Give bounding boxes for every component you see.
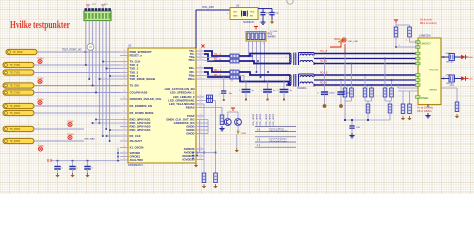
svg-text:1: 1 <box>123 118 124 120</box>
svg-text:1: 1 <box>199 102 200 104</box>
svg-text:1: 1 <box>123 139 124 141</box>
svg-text:1: 1 <box>123 77 124 79</box>
svg-text:COL_SPDX: COL_SPDX <box>257 113 259 125</box>
svg-text:OUT: OUT <box>233 12 238 14</box>
svg-text:COL_SPDX: COL_SPDX <box>270 113 272 125</box>
svg-text:PGND: PGND <box>37 99 44 101</box>
svg-text:RD+_B: RD+_B <box>320 73 328 75</box>
svg-text:RD-_B: RD-_B <box>320 83 327 85</box>
svg-text:1: 1 <box>277 90 278 92</box>
svg-text:1: 1 <box>199 154 200 156</box>
svg-text:1: 1 <box>123 134 124 136</box>
svg-text:TP_PWR: TP_PWR <box>13 51 23 54</box>
svg-text:TD-_A: TD-_A <box>214 58 221 61</box>
svg-text:1: 1 <box>199 49 200 51</box>
svg-text:TD+_B: TD+_B <box>320 51 328 53</box>
svg-text:RDm: RDm <box>188 77 195 81</box>
svg-text:TD-_B: TD-_B <box>320 61 327 63</box>
svg-text:RX_DV/MII_MODE: RX_DV/MII_MODE <box>130 111 154 115</box>
svg-text:Off for Half Duplex: Off for Half Duplex <box>269 140 288 143</box>
svg-text:PGND: PGND <box>37 78 44 80</box>
svg-text:TEST_POINT_AD: TEST_POINT_AD <box>62 49 82 52</box>
svg-text:RD+_A: RD+_A <box>214 69 222 72</box>
svg-text:2: 2 <box>406 40 407 42</box>
svg-text:GND_MAX: GND_MAX <box>84 138 95 141</box>
svg-text:TP_TXD3: TP_TXD3 <box>10 92 21 95</box>
svg-text:1: 1 <box>123 121 124 123</box>
svg-text:1: 1 <box>263 43 264 45</box>
svg-text:1: 1 <box>199 74 200 76</box>
svg-text:COL_SPDX: COL_SPDX <box>260 113 262 125</box>
svg-text:EN: EN <box>250 16 253 18</box>
svg-text:1: 1 <box>199 77 200 79</box>
svg-text:On for 100Mb/s: On for 100Mb/s <box>417 107 434 110</box>
svg-text:1: 1 <box>123 104 124 106</box>
svg-text:1: 1 <box>199 99 200 101</box>
svg-text:TP_TXD2: TP_TXD2 <box>10 85 21 88</box>
svg-text:LED grn: LED grn <box>446 62 453 64</box>
svg-text:1: 1 <box>123 63 124 65</box>
svg-text:1: 1 <box>286 57 287 59</box>
svg-text:1: 1 <box>399 45 400 47</box>
svg-text:RD-_A: RD-_A <box>214 74 221 77</box>
svg-text:1: 1 <box>199 118 200 120</box>
svg-text:PGND: PGND <box>67 121 74 123</box>
svg-text:1: 1 <box>123 155 124 157</box>
svg-text:LED: LED <box>469 57 473 59</box>
svg-text:1: 1 <box>313 78 314 80</box>
svg-text:4x49R9: 4x49R9 <box>268 37 277 39</box>
svg-text:VDDA: VDDA <box>334 38 341 41</box>
svg-text:1: 1 <box>313 57 314 59</box>
svg-text:LED: LED <box>469 79 473 81</box>
svg-text:1: 1 <box>199 52 200 54</box>
svg-text:RBIAS: RBIAS <box>186 106 195 110</box>
svg-text:U2: U2 <box>128 44 132 48</box>
svg-text:1: 1 <box>219 94 220 96</box>
svg-text:+3V3: +3V3 <box>445 53 451 55</box>
svg-text:COL_SPDX: COL_SPDX <box>253 113 255 125</box>
svg-text:X_OSC: X_OSC <box>270 31 278 33</box>
svg-text:1: 1 <box>199 55 200 57</box>
svg-text:RXD_3/PHYAD4: RXD_3/PHYAD4 <box>130 128 151 132</box>
svg-text:DNM: DNM <box>241 133 246 135</box>
svg-text:RX_ER/MDIX_EN: RX_ER/MDIX_EN <box>130 104 153 108</box>
svg-text:+3V3: +3V3 <box>445 74 451 76</box>
svg-text:LAN8720A: LAN8720A <box>419 35 431 38</box>
svg-text:1: 1 <box>123 71 124 73</box>
svg-text:PGND: PGND <box>37 58 44 60</box>
svg-text:TP_TXD0: TP_TXD0 <box>10 64 21 67</box>
svg-text:1: 1 <box>199 70 200 72</box>
svg-text:1: 1 <box>123 146 124 148</box>
svg-text:SPEED: SPEED <box>421 98 429 100</box>
svg-text:TP_TXD1: TP_TXD1 <box>10 72 21 75</box>
svg-text:RN1: RN1 <box>268 34 273 36</box>
svg-text:GNDD: GNDD <box>186 132 194 136</box>
svg-text:1: 1 <box>261 90 262 92</box>
svg-text:1: 1 <box>123 67 124 69</box>
svg-text:Hvilke testpunkter: Hvilke testpunkter <box>10 20 70 31</box>
svg-text:1: 1 <box>123 50 124 52</box>
svg-text:TD+_A: TD+_A <box>214 53 222 56</box>
svg-text:LINK/ACT: LINK/ACT <box>421 43 432 46</box>
svg-text:GND: GND <box>233 16 238 18</box>
svg-text:25LAHVT: 25LAHVT <box>130 139 143 143</box>
svg-text:1: 1 <box>123 111 124 113</box>
svg-text:1: 1 <box>227 13 228 15</box>
svg-text:CRS/CRS_DV/LED_CFG: CRS/CRS_DV/LED_CFG <box>130 97 162 101</box>
svg-text:1: 1 <box>123 54 124 56</box>
svg-text:TXD_4/RXE_MGGB: TXD_4/RXE_MGGB <box>130 77 156 81</box>
svg-text:Off for 10Mb/s: Off for 10Mb/s <box>417 110 432 113</box>
svg-text:1: 1 <box>123 151 124 153</box>
svg-text:COL/PHYAD0: COL/PHYAD0 <box>130 91 148 95</box>
svg-text:1: 1 <box>123 91 124 93</box>
svg-text:1: 1 <box>199 106 200 108</box>
svg-text:1: 1 <box>286 78 287 80</box>
svg-text:COL_SPDX: COL_SPDX <box>266 113 268 125</box>
svg-text:RESET_n: RESET_n <box>130 54 143 58</box>
svg-text:OSC_25M: OSC_25M <box>202 6 214 9</box>
svg-text:LED_LNK: LED_LNK <box>348 41 358 43</box>
svg-text:H1102NL: H1102NL <box>297 88 307 90</box>
svg-text:LED grn: LED grn <box>446 83 453 85</box>
svg-text:X1_OSCIN: X1_OSCIN <box>130 146 144 150</box>
svg-text:1: 1 <box>199 95 200 97</box>
svg-text:1: 1 <box>199 58 200 60</box>
svg-text:GREEN: GREEN <box>429 90 437 92</box>
svg-text:Off for No Collision: Off for No Collision <box>269 130 288 133</box>
svg-text:1: 1 <box>239 90 240 92</box>
svg-text:1: 1 <box>123 60 124 62</box>
svg-text:PGND: PGND <box>67 134 74 136</box>
svg-text:AVAL/TD8: AVAL/TD8 <box>130 158 144 162</box>
svg-text:1: 1 <box>199 66 200 68</box>
svg-text:TDm: TDm <box>188 58 195 62</box>
svg-text:1: 1 <box>199 114 200 116</box>
svg-text:SG8002JC: SG8002JC <box>243 22 255 24</box>
svg-text:TP_RXD1: TP_RXD1 <box>10 112 21 115</box>
svg-text:1: 1 <box>123 97 124 99</box>
svg-text:+3V3: +3V3 <box>449 85 455 87</box>
svg-text:1: 1 <box>123 158 124 160</box>
svg-text:PGND: PGND <box>38 145 45 147</box>
svg-text:VDD: VDD <box>250 12 255 14</box>
svg-text:LED_SPEED/AN_1: LED_SPEED/AN_1 <box>170 91 195 95</box>
svg-text:TP_RXD0: TP_RXD0 <box>10 105 21 108</box>
svg-text:COL_SPDX: COL_SPDX <box>273 113 275 125</box>
svg-text:TP_RXD3: TP_RXD3 <box>10 140 21 143</box>
svg-text:DP83848IVV: DP83848IVV <box>128 163 143 167</box>
svg-text:TX_EN: TX_EN <box>130 84 139 88</box>
svg-text:1: 1 <box>123 84 124 86</box>
svg-text:1: 1 <box>199 158 200 160</box>
svg-text:1: 1 <box>123 74 124 76</box>
svg-text:YELLOW: YELLOW <box>429 70 439 72</box>
svg-text:1: 1 <box>123 128 124 130</box>
svg-text:TP_RXD2: TP_RXD2 <box>10 128 21 131</box>
svg-text:RX_CLK: RX_CLK <box>130 134 141 138</box>
svg-text:Blink for Activity: Blink for Activity <box>420 22 438 25</box>
svg-text:1: 1 <box>123 125 124 127</box>
